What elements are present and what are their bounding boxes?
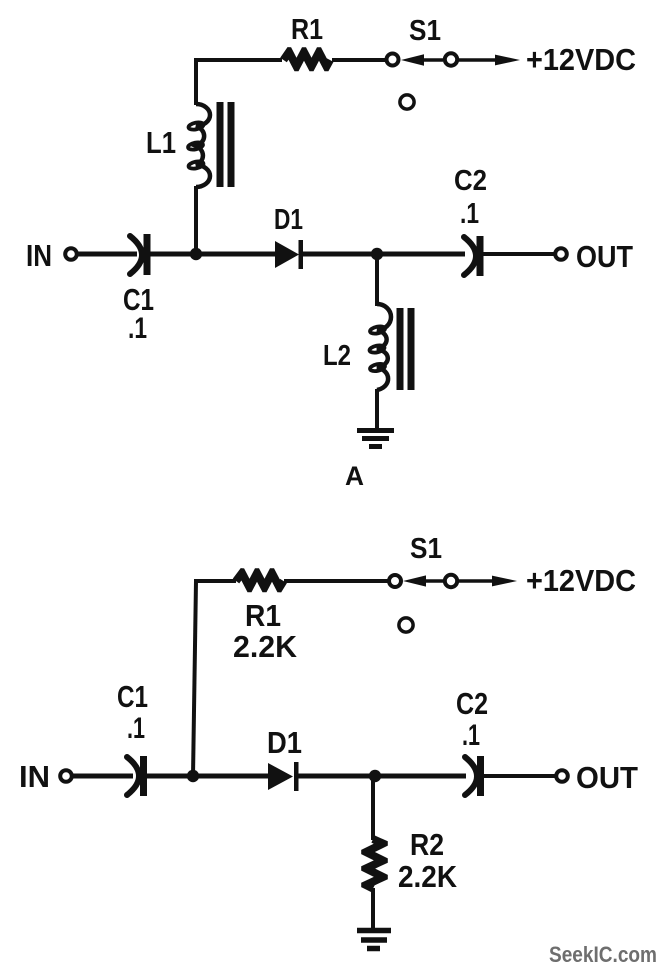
wire switch to +12VDC arrow (top) <box>457 58 505 62</box>
wire switch to +12VDC arrow (bottom) <box>458 579 502 583</box>
svg-text:+12VDC: +12VDC <box>526 42 636 77</box>
capacitor C1 (bottom) <box>127 756 147 796</box>
terminal IN (top) <box>65 248 77 260</box>
resistor R1 (bottom) <box>233 568 287 592</box>
wire R1 to switch (bottom) <box>284 579 390 583</box>
capacitor C2 (bottom) <box>465 756 484 796</box>
svg-text:.1: .1 <box>127 712 145 745</box>
node junction left (bottom) <box>187 770 199 782</box>
arrowhead +12VDC (top) <box>495 55 520 66</box>
node junction left (top) <box>190 248 202 260</box>
switch S1 left arrow (bottom) <box>403 575 444 586</box>
svg-text:.1: .1 <box>460 198 479 230</box>
svg-text:IN: IN <box>26 238 52 273</box>
switch S1 moving contact (bottom) <box>445 575 457 587</box>
wire IN to C1 (top) <box>78 252 137 257</box>
svg-text:S1: S1 <box>410 533 442 565</box>
wire top rail left (top) <box>194 58 282 62</box>
svg-text:.1: .1 <box>128 312 147 345</box>
svg-text:L1: L1 <box>146 125 176 160</box>
switch S1 pole contact (top) <box>387 54 399 66</box>
diode D1 (top) <box>275 240 303 269</box>
svg-text:R1: R1 <box>291 14 323 46</box>
svg-text:D1: D1 <box>267 725 302 760</box>
wire junction to L2 (top) <box>375 254 379 306</box>
wire L2 to ground (top) <box>375 389 379 429</box>
svg-text:R1: R1 <box>245 598 281 633</box>
terminal OUT (bottom) <box>556 770 568 782</box>
wire L1 to main line (top) <box>194 186 198 254</box>
svg-text:OUT: OUT <box>576 760 638 795</box>
wire vertical branch (bottom) <box>193 581 196 776</box>
switch S1 throw contact (bottom) <box>399 618 413 632</box>
svg-text:OUT: OUT <box>576 239 633 274</box>
resistor R1 (top) <box>280 47 333 71</box>
wire C1 to D1 (top) <box>150 252 276 257</box>
wire L1 branch vertical upper (top) <box>194 58 198 105</box>
wire R2 to ground <box>371 888 375 931</box>
svg-text:IN: IN <box>19 759 50 794</box>
switch S1 throw contact (top) <box>400 95 414 109</box>
switch S1 moving contact (top) <box>445 53 457 65</box>
capacitor C1 (top) <box>130 234 151 275</box>
svg-text:2.2K: 2.2K <box>398 859 458 894</box>
capacitor C2 (top) <box>464 236 484 276</box>
svg-text:+12VDC: +12VDC <box>526 563 636 598</box>
resistor R2 <box>361 835 388 892</box>
svg-text:C2: C2 <box>456 686 488 721</box>
switch S1 left arrow (top) <box>401 54 443 65</box>
node junction right (bottom) <box>369 770 381 782</box>
svg-text:S1: S1 <box>409 15 441 47</box>
svg-text:C1: C1 <box>117 679 148 714</box>
terminal OUT (top) <box>555 248 567 260</box>
inductor L2 coil <box>369 304 391 390</box>
wire C2 to OUT (bottom) <box>484 774 556 778</box>
wire D1 to C2 (bottom) <box>298 774 466 779</box>
wire C1 to D1 (bottom) <box>147 774 269 779</box>
inductor L1 coil <box>187 104 210 187</box>
node junction right (top) <box>371 248 383 260</box>
switch S1 pole contact (bottom) <box>389 575 401 587</box>
svg-text:A: A <box>345 461 364 491</box>
wire top rail corner (bottom) <box>194 579 236 583</box>
diode D1 (bottom) <box>268 762 299 791</box>
wire D1 to C2 (top) <box>303 252 465 257</box>
svg-text:R2: R2 <box>410 827 444 862</box>
svg-text:2.2K: 2.2K <box>233 629 298 664</box>
inductor L2 core bars <box>397 308 415 390</box>
arrowhead +12VDC (bottom) <box>492 576 517 587</box>
wire IN to C1 (bottom) <box>73 774 133 779</box>
ground (bottom) <box>357 931 391 949</box>
svg-text:SeekIC.com: SeekIC.com <box>549 942 657 967</box>
ground (top) <box>357 431 394 447</box>
svg-text:L2: L2 <box>323 340 351 372</box>
svg-text:.1: .1 <box>462 719 480 752</box>
wire R1 to switch (top) <box>332 58 387 62</box>
svg-text:C2: C2 <box>454 165 487 197</box>
svg-text:D1: D1 <box>274 204 303 236</box>
terminal IN (bottom) <box>60 770 72 782</box>
wire C2 to OUT (top) <box>483 252 555 256</box>
inductor L1 core bars <box>217 102 235 187</box>
wire junction to R2 (bottom) <box>371 776 375 840</box>
